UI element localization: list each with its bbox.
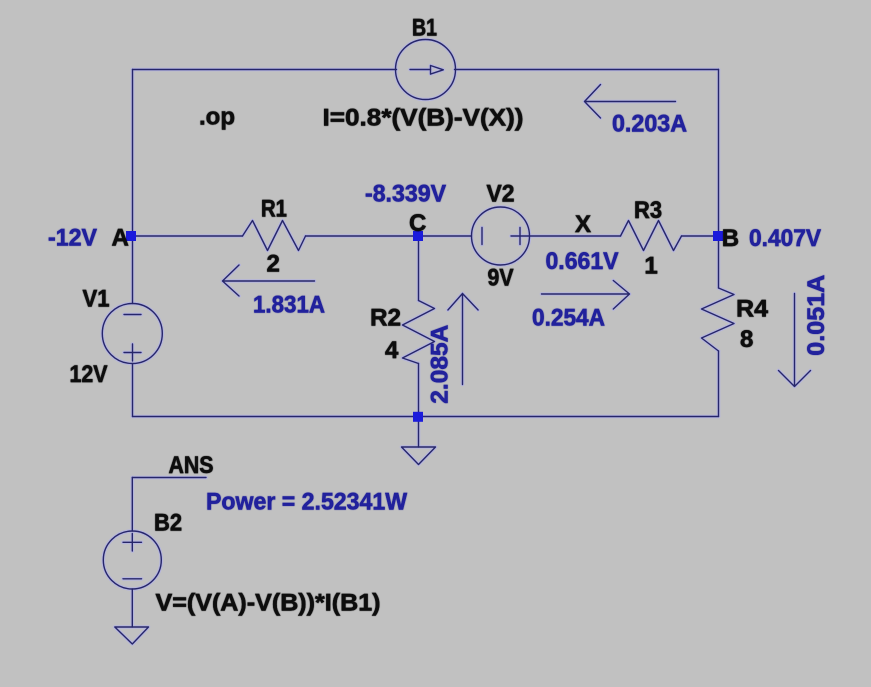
svg-text:9V: 9V	[488, 265, 514, 292]
node A junction	[126, 231, 136, 241]
node C junction	[413, 231, 423, 241]
svg-text:R2: R2	[370, 305, 401, 332]
svg-text:Power = 2.52341W: Power = 2.52341W	[206, 489, 407, 516]
svg-text:A: A	[112, 225, 129, 252]
svg-text:B2: B2	[154, 510, 182, 537]
node 0 junction	[413, 412, 423, 422]
node B junction	[713, 231, 723, 241]
svg-text:.op: .op	[199, 104, 235, 131]
svg-text:0.661V: 0.661V	[546, 248, 619, 275]
svg-text:2: 2	[267, 251, 280, 278]
svg-text:0.254A: 0.254A	[532, 305, 605, 332]
svg-text:V2: V2	[487, 181, 515, 208]
svg-text:4: 4	[385, 337, 399, 364]
svg-text:V1: V1	[83, 286, 110, 313]
svg-text:I=0.8*(V(B)-V(X)): I=0.8*(V(B)-V(X))	[323, 105, 524, 132]
svg-text:0.051A: 0.051A	[803, 275, 830, 356]
svg-text:B1: B1	[412, 15, 437, 42]
svg-text:-8.339V: -8.339V	[365, 181, 446, 208]
svg-text:-12V: -12V	[48, 225, 97, 252]
svg-text:12V: 12V	[70, 361, 108, 388]
svg-text:C: C	[409, 210, 426, 237]
svg-text:0.407V: 0.407V	[749, 225, 821, 252]
svg-text:0.203A: 0.203A	[612, 111, 687, 138]
svg-text:X: X	[575, 211, 591, 238]
svg-text:R4: R4	[736, 296, 769, 323]
svg-text:R3: R3	[634, 197, 662, 224]
svg-text:B: B	[722, 225, 739, 252]
svg-text:R1: R1	[261, 196, 287, 223]
svg-text:1.831A: 1.831A	[253, 292, 325, 319]
svg-text:1: 1	[644, 253, 657, 280]
svg-text:ANS: ANS	[169, 452, 214, 479]
svg-text:2.085A: 2.085A	[427, 325, 454, 404]
svg-text:V=(V(A)-V(B))*I(B1): V=(V(A)-V(B))*I(B1)	[156, 590, 381, 617]
svg-text:8: 8	[740, 326, 753, 353]
